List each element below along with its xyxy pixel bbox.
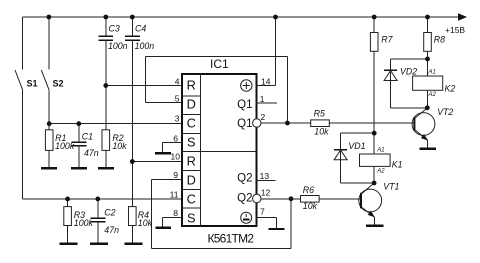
svg-text:10k: 10k — [303, 201, 318, 211]
svg-text:4: 4 — [175, 76, 180, 86]
svg-text:10: 10 — [171, 152, 181, 162]
svg-text:VT1: VT1 — [383, 182, 399, 192]
svg-text:1: 1 — [260, 94, 265, 104]
svg-text:IC1: IC1 — [210, 57, 229, 71]
svg-text:A2: A2 — [428, 92, 437, 98]
svg-text:C2: C2 — [104, 208, 115, 218]
svg-text:D: D — [187, 97, 196, 112]
svg-text:10k: 10k — [138, 218, 153, 228]
svg-text:K1: K1 — [392, 160, 403, 170]
svg-text:C: C — [187, 192, 196, 207]
svg-text:10k: 10k — [112, 141, 127, 151]
svg-text:Q2: Q2 — [237, 172, 252, 184]
svg-text:S1: S1 — [27, 79, 38, 89]
svg-text:2: 2 — [261, 112, 266, 122]
svg-text:A1: A1 — [376, 148, 384, 154]
svg-text:Q2: Q2 — [237, 192, 252, 204]
svg-text:R5: R5 — [314, 109, 325, 119]
svg-text:R8: R8 — [434, 35, 445, 45]
svg-text:C1: C1 — [82, 132, 93, 142]
svg-text:9: 9 — [173, 170, 178, 180]
svg-text:R6: R6 — [303, 185, 314, 195]
svg-text:3: 3 — [175, 114, 180, 124]
svg-text:VT2: VT2 — [437, 107, 453, 117]
svg-text:47n: 47n — [84, 148, 99, 158]
svg-text:Q1: Q1 — [237, 99, 252, 111]
svg-text:VD1: VD1 — [348, 141, 365, 151]
svg-text:C: C — [187, 116, 196, 131]
svg-text:S: S — [187, 135, 196, 150]
svg-text:R7: R7 — [381, 35, 393, 45]
svg-text:Q1: Q1 — [237, 118, 252, 130]
svg-text:100n: 100n — [108, 41, 128, 51]
svg-text:6: 6 — [173, 133, 178, 143]
svg-text:7: 7 — [260, 207, 265, 217]
svg-text:R: R — [187, 78, 196, 93]
svg-text:14: 14 — [261, 76, 271, 86]
svg-text:D: D — [187, 173, 196, 188]
svg-text:47n: 47n — [104, 225, 119, 235]
svg-text:13: 13 — [260, 171, 270, 181]
svg-text:S2: S2 — [53, 79, 64, 89]
svg-text:A1: A1 — [428, 70, 436, 76]
svg-text:VD2: VD2 — [400, 67, 417, 77]
svg-text:S: S — [187, 211, 196, 226]
svg-text:10k: 10k — [314, 127, 329, 137]
svg-text:C4: C4 — [135, 24, 146, 34]
svg-text:100k: 100k — [74, 218, 94, 228]
svg-text:5: 5 — [175, 93, 180, 103]
svg-text:+15В: +15В — [445, 25, 465, 35]
svg-text:K2: K2 — [445, 83, 456, 93]
svg-text:100n: 100n — [135, 41, 155, 51]
svg-text:C3: C3 — [109, 24, 120, 34]
svg-text:R: R — [187, 154, 196, 169]
svg-text:К561ТМ2: К561ТМ2 — [208, 232, 255, 246]
svg-text:A2: A2 — [376, 168, 385, 174]
svg-text:11: 11 — [170, 190, 179, 200]
svg-text:12: 12 — [261, 188, 271, 198]
svg-text:8: 8 — [173, 208, 178, 218]
